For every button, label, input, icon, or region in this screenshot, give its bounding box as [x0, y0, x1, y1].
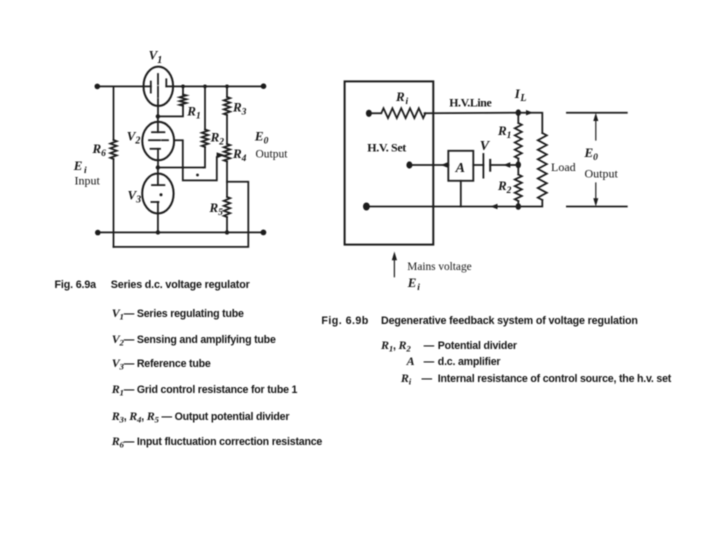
battery V long plate	[482, 154, 484, 178]
svg-text:Mains voltage: Mains voltage	[407, 261, 471, 273]
wire bottom rail	[98, 231, 264, 233]
arrowhead E0 up	[593, 113, 598, 121]
battery V short plate	[489, 160, 491, 171]
node R1 top	[181, 85, 185, 89]
tube V1	[144, 67, 174, 117]
resistor R4	[224, 144, 230, 162]
wire A amp input	[409, 164, 448, 166]
svg-text:R4: R4	[232, 146, 247, 164]
wire A box to bottom	[460, 181, 462, 207]
svg-text:IL: IL	[514, 86, 527, 104]
svg-text:V2— Sensing and amplifying tub: V2— Sensing and amplifying tube	[112, 332, 276, 348]
node divider mid junction	[516, 161, 521, 168]
wire top rail	[97, 85, 263, 87]
wire bottom line	[366, 206, 518, 208]
node divider bottom junction	[516, 203, 521, 210]
arrowhead E0 down	[593, 198, 598, 206]
arrowhead bottom wire left	[491, 204, 498, 209]
node R5 rail	[225, 230, 229, 234]
wire R3 R4 column	[226, 86, 228, 232]
svg-text:R1, R2—Potential divider: R1, R2—Potential divider	[380, 338, 517, 354]
svg-text:R6— Input fluctuation correcti: R6— Input fluctuation correction resista…	[111, 434, 323, 450]
svg-text:V3: V3	[128, 188, 142, 206]
node V1 grid / V2 anode	[156, 114, 160, 118]
node Ri terminal	[366, 110, 372, 117]
svg-text:V3— Reference tube: V3— Reference tube	[112, 356, 211, 372]
svg-text:R6: R6	[92, 141, 107, 159]
resistor R5	[224, 197, 230, 217]
wire load bottom	[518, 200, 542, 207]
svg-text:Degenerative feedback system o: Degenerative feedback system of voltage …	[381, 315, 638, 327]
arrowhead battery wire left	[503, 162, 510, 167]
svg-text:Output: Output	[256, 148, 289, 160]
mains arrow shaft	[393, 259, 395, 277]
node input+	[95, 84, 101, 90]
svg-text:R1: R1	[497, 123, 511, 141]
svg-text:A: A	[455, 161, 465, 176]
svg-text:V: V	[480, 139, 491, 154]
resistor R2	[202, 130, 208, 148]
svg-text:R1: R1	[186, 104, 200, 122]
TEXT FIG B	[395, 86, 598, 293]
resistor R3	[224, 97, 230, 115]
node hv line junction	[516, 109, 521, 116]
node R3 top	[225, 85, 229, 89]
arrowhead IL right	[526, 110, 533, 115]
wire R2 branch	[204, 86, 206, 167]
node input-	[95, 230, 101, 236]
wire battery to divider	[490, 164, 518, 166]
FIG B GROUP	[345, 81, 627, 276]
resistor Load	[538, 133, 547, 200]
wire R1 branch	[158, 86, 183, 116]
svg-text:R1— Grid control resistance fo: R1— Grid control resistance for tube 1	[111, 382, 298, 398]
node stray dot	[196, 174, 199, 177]
op-amp A box	[448, 151, 473, 181]
resistor R1b	[515, 123, 522, 159]
node V2 cathode	[156, 165, 160, 169]
E0 arrow down shaft	[595, 183, 597, 199]
tube V2	[142, 116, 174, 167]
wire wiper branch	[183, 157, 217, 180]
wire lower loop	[114, 182, 249, 247]
svg-text:R2: R2	[497, 178, 512, 196]
resistor Ri	[381, 108, 425, 118]
wire cathode net	[158, 167, 204, 169]
svg-text:Series d.c. voltage regulator: Series d.c. voltage regulator	[111, 279, 250, 291]
node V3 gas dot	[160, 193, 163, 196]
svg-text:R5: R5	[209, 200, 224, 218]
arrowhead into A wire left	[441, 162, 448, 167]
node bottom terminal	[363, 203, 370, 211]
E0 arrow up shaft	[595, 119, 597, 140]
svg-text:H.V. Set: H.V. Set	[367, 140, 406, 154]
wire hv line	[369, 113, 542, 133]
svg-text:H.V.Line: H.V.Line	[449, 95, 491, 109]
svg-text:V2: V2	[127, 129, 141, 147]
wire divider column	[517, 113, 519, 207]
svg-text:Ri—Internal resistance of cont: Ri—Internal resistance of control source…	[400, 371, 672, 387]
resistor R6	[110, 140, 116, 159]
svg-text:E0: E0	[584, 145, 599, 163]
CAPTIONS	[55, 279, 638, 327]
node V3 cathode rail	[156, 230, 160, 234]
svg-text:Output: Output	[585, 167, 619, 181]
svg-text:Input: Input	[75, 173, 101, 187]
svg-text:Load: Load	[551, 160, 576, 174]
svg-text:R3: R3	[232, 99, 247, 117]
E0 dim bottom line	[567, 206, 627, 208]
resistor R2b	[515, 175, 522, 202]
node mid terminal	[406, 161, 412, 168]
LIST FIG B	[380, 338, 672, 387]
E0 dim top line	[567, 112, 627, 114]
wire V2 grid to R2	[174, 140, 183, 167]
H.V. Set box	[345, 81, 434, 244]
wire A to battery	[473, 164, 483, 166]
wire R5 top to loop	[226, 182, 228, 197]
TEXT FIG A	[73, 48, 269, 219]
svg-text:E0: E0	[254, 129, 269, 147]
svg-text:R3, R4, R5 — Output potential: R3, R4, R5 — Output potential divider	[111, 409, 290, 425]
arrowhead mains up	[392, 252, 397, 261]
tube V3	[142, 168, 173, 233]
node output-	[261, 230, 267, 236]
LIST FIG A	[111, 306, 323, 450]
svg-text:Ri: Ri	[395, 89, 408, 107]
wiper arrowhead R4	[217, 152, 225, 158]
svg-text:Ei: Ei	[407, 275, 420, 293]
node R2 top	[203, 85, 207, 89]
svg-text:Fig. 6.9b: Fig. 6.9b	[321, 315, 368, 327]
svg-text:R2: R2	[210, 130, 225, 148]
svg-text:V1— Series regulating tube: V1— Series regulating tube	[112, 306, 244, 322]
svg-text:V1: V1	[149, 48, 163, 67]
wire left vertical R6 branch	[113, 86, 115, 247]
node output+	[261, 83, 267, 89]
svg-text:A—d.c. amplifier: A—d.c. amplifier	[406, 354, 501, 368]
svg-text:Fig. 6.9a: Fig. 6.9a	[55, 279, 98, 291]
resistor R1	[180, 95, 187, 106]
